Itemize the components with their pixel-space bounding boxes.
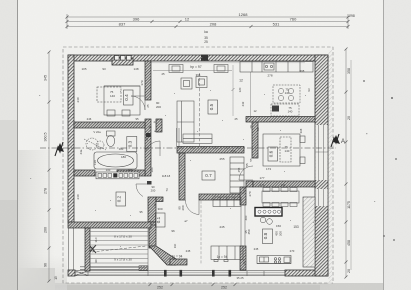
sheet fold line right (383, 0, 385, 290)
wardrobe row below bath wall (96, 172, 139, 179)
bottom wall solid right section (285, 270, 328, 276)
scan shading left margin (0, 120, 17, 290)
fridge tall unit right (303, 197, 315, 267)
wall H4 (top of 0.6) (246, 117, 315, 123)
scan noise dots (30, 57, 375, 247)
wall H5b (253, 181, 315, 187)
wall cabinets living top (169, 65, 228, 73)
entry sideboard (211, 246, 243, 262)
speckle small dimension texts (79, 69, 311, 280)
terrace door right wall kitchen (315, 189, 327, 206)
wall H1 (0.4 / 0.3) (74, 122, 145, 128)
windows (lighter breaks in walls) (315, 125, 327, 206)
wall V3a (entry/kitchen) (240, 187, 246, 205)
door arc 0.7 (185, 200, 199, 215)
wall V3b (240, 246, 246, 270)
top dimension row 2 (67, 21, 348, 23)
room 0.7 wardrobe column (230, 157, 244, 193)
wall H3 (0.2 / stairs) (68, 222, 151, 228)
scan shading bottom strip (0, 283, 411, 290)
wall H7 (bottom of 0.7) (199, 194, 244, 200)
wall V1 lower (right of bath) (145, 119, 151, 176)
dashed hp line vertical hall (200, 196, 202, 265)
door jamb marks bottom doors (164, 270, 231, 277)
WC (107, 131, 116, 147)
armchair squares (181, 77, 207, 90)
sink dashed (84, 138, 106, 150)
dashed island tables (271, 85, 300, 116)
bathtub (94, 152, 137, 169)
scan specks (363, 80, 397, 241)
misc dimension texts inside plan (76, 67, 265, 235)
bathroom door arc in corridor (145, 141, 160, 156)
kitchen top counter (240, 62, 313, 73)
left dimension chain (48, 52, 50, 281)
right dimension chain (346, 49, 351, 277)
verticals joining rows at ends (66, 14, 68, 29)
section marker left (55, 142, 63, 156)
sheet fold line left (17, 0, 19, 290)
ext wall bottom: glazed run (68, 271, 285, 276)
room 0.4: bed (97, 86, 140, 116)
wall V5 (left of 0.6) (252, 117, 258, 158)
ticks row3 (66, 25, 69, 28)
stair newel X blob (89, 245, 96, 253)
chamfer horizontal piece (170, 259, 187, 265)
dashed ceiling line living (199, 73, 201, 146)
ext wall left (68, 55, 74, 222)
cased opening corridor/living (176, 128, 178, 147)
wall H2a (0.3 / 0.2) (74, 170, 95, 176)
section marker right (331, 134, 339, 147)
ticks row2 (66, 20, 69, 23)
ext wall top (68, 55, 328, 61)
thin line under top wall (living) (151, 62, 305, 64)
window right wall bedroom 0.6 (315, 125, 327, 180)
V3 middle thin partition (241, 205, 245, 246)
door arc room 0.2 (136, 184, 150, 197)
hall counter near kitchen (213, 197, 241, 207)
niche blob on bath wall (146, 133, 151, 137)
right terrace hatch strip (329, 50, 333, 284)
chamfer diagonal piece (149, 246, 176, 265)
wall H6 (top of 0.7) (177, 147, 244, 154)
window X symbol bottom-left (75, 271, 88, 276)
wall V1 upper (right of room 0.4) (145, 61, 151, 100)
bedroom 0.6 bed (263, 134, 305, 166)
wall H5a (0.6/0.8) (246, 181, 253, 187)
roof overhang dashed rectangle (63, 47, 333, 283)
kitchen bottom counter (257, 256, 291, 264)
kitchen island (255, 208, 282, 217)
living room L-sofa (177, 101, 212, 143)
vent squares on top wall (115, 56, 132, 61)
bottom labels below roofline (157, 286, 227, 290)
ext wall top notch (112, 58, 133, 65)
wall V1c (right of 0.2 lower) (148, 197, 156, 222)
dining set kitchen 0.8 (262, 188, 299, 207)
door arc room 0.4 (131, 96, 145, 110)
door arc 0.6 (239, 166, 253, 180)
wall V4 (left of 0.7) (179, 153, 185, 200)
hp line (153, 70, 232, 72)
wall H2b (117, 170, 145, 176)
stairwell bottom inner wall (80, 267, 148, 270)
dark mark on top wall center (201, 55, 208, 61)
scan shading right margin (384, 0, 411, 290)
ticks row1 (66, 16, 69, 19)
under-stair wall vertical piece (149, 222, 156, 248)
top dimension row 3 (67, 26, 348, 28)
bottom wall solid left stub (68, 270, 75, 276)
pillar between corridor and living (156, 119, 162, 132)
ext wall right (315, 55, 328, 276)
stair side wall (85, 228, 90, 271)
left gradient wash (17, 150, 55, 290)
thin kitchen edge line (250, 72, 252, 116)
left wall lower glazed/light part (68, 222, 73, 272)
top dimension row 1 (67, 16, 348, 18)
